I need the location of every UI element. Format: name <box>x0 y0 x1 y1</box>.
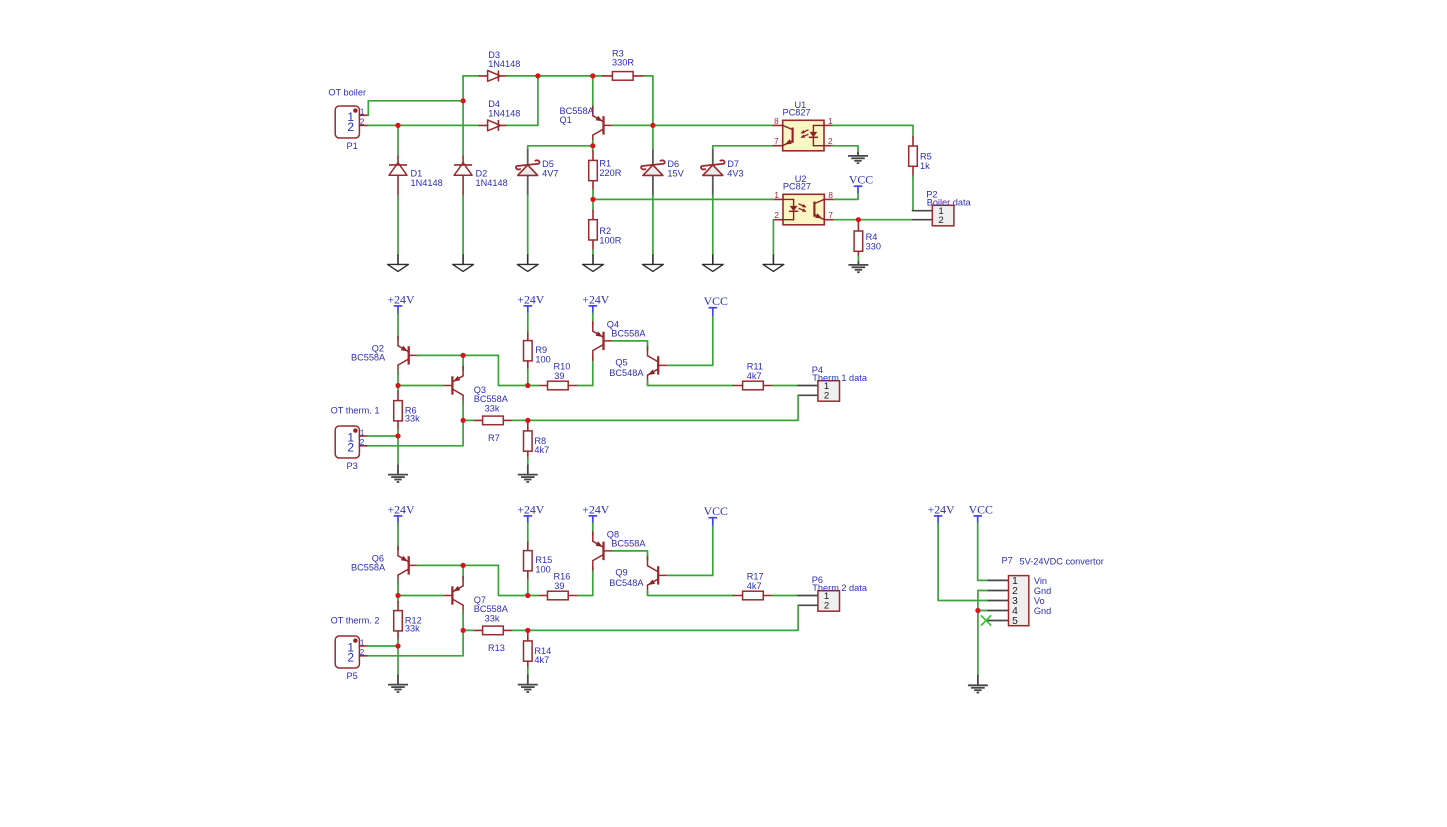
wire node to R2 <box>592 199 594 210</box>
power +24V (Q6 emitter) <box>388 502 415 523</box>
power +24V (P7) <box>928 502 955 523</box>
svg-text:33k: 33k <box>485 613 500 623</box>
svg-text:5V-24VDC convertor: 5V-24VDC convertor <box>1020 557 1104 567</box>
zener diode D6 15V <box>641 150 685 195</box>
zener diode D7 4V3 <box>701 150 744 195</box>
wire Q1 base to U1 pin 8 <box>613 124 773 126</box>
wire VCC to P7 pin1 (Vin) <box>978 523 989 580</box>
optocoupler U2 PC827 <box>773 174 834 225</box>
junction P1.2 / D1 <box>395 123 400 128</box>
zener diode D5 4V7 <box>516 150 559 195</box>
svg-text:D6: D6 <box>667 159 679 169</box>
wire R1 to node <box>592 190 594 199</box>
resistor R7 33k <box>474 403 513 443</box>
svg-text:4k7: 4k7 <box>747 581 762 591</box>
svg-text:BC558A: BC558A <box>611 538 646 548</box>
no-connect flag P7 pin5 <box>982 616 991 625</box>
junction Q3 collector / R7 / P3.2 <box>461 418 466 423</box>
wire R12 to P5.1 <box>397 640 399 647</box>
svg-text:R1: R1 <box>599 159 611 169</box>
wire to P7 pin4 (Gnd) <box>978 610 988 612</box>
svg-text:2: 2 <box>347 120 354 134</box>
junction Q6 base / Q7 emitter <box>461 563 466 568</box>
svg-text:BC558A: BC558A <box>474 394 509 404</box>
wire U2 pin1 to R1/R2 node <box>593 198 773 200</box>
svg-text:Gnd: Gnd <box>1034 586 1051 596</box>
svg-text:2: 2 <box>824 601 829 612</box>
transistor Q4 BC558A <box>593 319 647 360</box>
wire to Q3 emitter <box>462 355 464 370</box>
resistor R15 100 <box>524 542 553 579</box>
wire down to ground <box>397 646 399 675</box>
wire vertical D3 anode to D2 cathode <box>462 76 464 156</box>
transistor Q2 BC558A <box>351 336 418 374</box>
svg-text:2: 2 <box>347 651 354 665</box>
junction Q2 base / Q3 emitter <box>461 353 466 358</box>
wire node to R4 <box>857 220 859 222</box>
power VCC (U2 pin8) <box>849 173 873 194</box>
wire to R6 <box>397 386 399 392</box>
svg-text:8: 8 <box>828 191 833 200</box>
svg-text:R2: R2 <box>599 226 611 236</box>
wire R2 to ground <box>592 250 594 255</box>
resistor R11 4k7 <box>734 361 773 389</box>
wire P3.2 up to R7 row <box>368 420 463 445</box>
wire R17 to P6.1 <box>773 595 799 597</box>
wire node to D5 <box>528 146 593 150</box>
junction R9 / R10 <box>525 383 530 388</box>
svg-text:7: 7 <box>828 211 833 220</box>
power +24V (R15) <box>517 502 544 523</box>
wire U1 pin2 to ground <box>832 146 858 153</box>
svg-text:4V3: 4V3 <box>727 168 743 178</box>
svg-text:+24V: +24V <box>388 502 415 516</box>
svg-text:+24V: +24V <box>582 292 609 306</box>
junction R6 / P3.1 <box>395 433 400 438</box>
svg-text:D5: D5 <box>542 159 554 169</box>
ground (D5) <box>517 255 538 271</box>
wire VCC to U2 pin8 <box>834 194 858 200</box>
wire D1 to ground <box>397 196 399 256</box>
ground (D6) <box>643 255 664 271</box>
ground (U2 pin2) <box>763 255 784 271</box>
ground (R6) <box>388 465 408 482</box>
svg-text:+24V: +24V <box>928 502 955 516</box>
svg-text:330: 330 <box>866 242 881 252</box>
wire Q3 base <box>398 385 443 387</box>
svg-text:+24V: +24V <box>388 292 415 306</box>
svg-text:33k: 33k <box>485 403 500 413</box>
junction R12 / P5.1 <box>395 643 400 648</box>
svg-text:2: 2 <box>360 118 365 127</box>
svg-text:2: 2 <box>824 391 829 402</box>
wire D2 to ground <box>462 196 464 256</box>
wire D6 to ground <box>652 195 654 255</box>
power VCC (Q9 base) <box>704 504 728 525</box>
wire D7 to ground <box>712 195 714 255</box>
wire +24V to Q2 <box>397 313 399 340</box>
svg-text:Q9: Q9 <box>615 568 627 578</box>
svg-text:+24V: +24V <box>517 292 544 306</box>
svg-text:100: 100 <box>535 354 550 364</box>
resistor R8 4k7 <box>524 422 550 458</box>
svg-text:5: 5 <box>1012 616 1018 627</box>
svg-text:Q5: Q5 <box>615 358 627 368</box>
svg-text:P5: P5 <box>346 671 357 681</box>
wire to ground <box>527 668 529 676</box>
svg-text:2: 2 <box>360 438 365 447</box>
ground (U1 pin2) <box>848 153 868 164</box>
resistor R6 33k <box>394 392 420 430</box>
wire R16 to Q8 collector <box>578 566 593 595</box>
svg-text:BC558A: BC558A <box>351 353 386 363</box>
svg-text:1N4148: 1N4148 <box>476 178 508 188</box>
svg-text:VCC: VCC <box>969 502 993 516</box>
junction R13 / R14 / long wire <box>525 628 530 633</box>
svg-text:2: 2 <box>360 648 365 657</box>
svg-text:1: 1 <box>774 191 779 200</box>
wire to R1 <box>592 146 594 151</box>
svg-text:100R: 100R <box>599 235 621 245</box>
wire +24V to Q6 <box>397 523 399 550</box>
svg-text:Vo: Vo <box>1034 596 1045 606</box>
svg-text:Therm 2 data: Therm 2 data <box>812 583 868 593</box>
connector P5 (OT therm. 2) <box>331 615 380 681</box>
power +24V (Q2 emitter) <box>388 292 415 313</box>
diode D2 1N4148 <box>454 156 508 195</box>
junction U2.7 / R4 <box>856 217 861 222</box>
svg-text:PC827: PC827 <box>783 181 811 191</box>
wire Q8 base to Q9 collector <box>613 551 648 560</box>
wire R9 to R10 row <box>527 369 529 385</box>
resistor R2 100R <box>589 210 622 250</box>
wire base row to D6 <box>652 125 654 149</box>
wire P5.2 up to R7 row <box>368 630 463 655</box>
transistor Q6 BC558A <box>351 546 418 584</box>
wire to R12 <box>397 596 399 602</box>
resistor R10 39 <box>538 362 577 390</box>
wire Q5 base to VCC <box>668 316 713 366</box>
svg-text:2: 2 <box>774 211 779 220</box>
wire to ground <box>527 458 529 466</box>
svg-text:1: 1 <box>360 638 365 647</box>
svg-text:+24V: +24V <box>517 502 544 516</box>
svg-text:Gnd: Gnd <box>1034 606 1051 616</box>
wire down to D1 <box>397 125 399 156</box>
wire U2 pin7 to P2 pin2 <box>834 219 913 221</box>
wire P1.1 to D2/D3 column <box>368 101 463 116</box>
junction Q3 base / R6 <box>395 383 400 388</box>
svg-text:4k7: 4k7 <box>534 655 549 665</box>
svg-text:8: 8 <box>774 117 779 126</box>
wire to D3 anode <box>463 75 479 77</box>
transistor Q1 BC558A <box>560 106 613 145</box>
connector P6 (Therm 2 data) <box>798 575 868 612</box>
power VCC (Q5 base) <box>704 294 728 315</box>
ground (D2) <box>453 255 474 271</box>
junction P1.1 / D2-D3 net <box>461 98 466 103</box>
svg-text:R11: R11 <box>747 361 763 371</box>
transistor Q5 BC548A <box>609 346 667 384</box>
svg-text:OT therm. 2: OT therm. 2 <box>331 615 380 625</box>
svg-text:7: 7 <box>774 137 779 146</box>
svg-text:2: 2 <box>828 137 833 146</box>
wire R15 to R10 row <box>527 579 529 595</box>
wire Q7 base <box>398 595 443 597</box>
svg-text:BC548A: BC548A <box>609 368 644 378</box>
wire Q6 base row to R10 row <box>417 565 528 595</box>
svg-text:4V7: 4V7 <box>542 168 558 178</box>
junction R3/Q1 emitter <box>590 73 595 78</box>
wire Q9 emitter to R17 <box>648 591 734 596</box>
svg-text:R15: R15 <box>535 555 552 565</box>
svg-text:Therm 1 data: Therm 1 data <box>812 373 868 383</box>
svg-text:VCC: VCC <box>704 504 728 518</box>
wire P1.2 to D4 anode <box>368 124 479 126</box>
svg-text:100: 100 <box>535 564 550 574</box>
svg-text:P3: P3 <box>346 461 357 471</box>
svg-text:Boiler data: Boiler data <box>927 198 972 208</box>
wire U2 pin2 to ground <box>772 220 774 256</box>
ground (P7) <box>968 676 988 693</box>
wire to Q7 emitter <box>462 565 464 580</box>
wire Q1 emitter from D3 row <box>592 76 594 110</box>
svg-text:1: 1 <box>828 117 833 126</box>
connector P7 (5V-24VDC convertor) <box>988 556 1103 628</box>
svg-text:P7: P7 <box>1002 556 1013 566</box>
diode D4 1N4148 <box>479 99 520 131</box>
svg-text:15V: 15V <box>667 168 684 178</box>
wire D5 to ground <box>527 195 529 255</box>
diode D3 1N4148 <box>479 50 520 82</box>
resistor R1 220R <box>589 151 622 190</box>
wire R6 to P3.1 <box>397 430 399 437</box>
svg-text:R9: R9 <box>535 345 547 355</box>
connector P2 (Boiler data) <box>913 190 972 227</box>
wire <box>528 385 539 387</box>
wire to R14 <box>527 630 529 632</box>
svg-text:1N4148: 1N4148 <box>488 108 520 118</box>
wire R5 to P2 pin1 <box>912 176 914 211</box>
svg-text:Q1: Q1 <box>560 115 572 125</box>
svg-text:Vin: Vin <box>1034 576 1047 586</box>
svg-text:VCC: VCC <box>849 173 873 187</box>
svg-text:330R: 330R <box>612 58 634 68</box>
wire +24V to Q8 <box>592 523 594 535</box>
resistor R14 4k7 <box>524 632 552 668</box>
power VCC (P7) <box>969 502 993 523</box>
wire <box>512 419 527 421</box>
wire down to ground <box>397 436 399 465</box>
svg-text:1k: 1k <box>920 161 930 171</box>
connector P3 (OT therm. 1) <box>331 405 380 471</box>
svg-text:39: 39 <box>554 371 564 381</box>
resistor R3 330R <box>603 48 644 80</box>
svg-text:VCC: VCC <box>704 294 728 308</box>
transistor Q3 BC558A <box>443 366 509 404</box>
svg-text:R4: R4 <box>866 232 878 242</box>
svg-text:2: 2 <box>938 215 943 226</box>
wire to R8 <box>527 420 529 422</box>
wire <box>463 629 473 631</box>
svg-text:220R: 220R <box>599 168 621 178</box>
ground (R12) <box>388 675 408 692</box>
junction R1/R2/U2.1 <box>590 197 595 202</box>
power +24V (R9) <box>517 292 544 313</box>
wire P6.2 to R14 node <box>528 605 798 630</box>
svg-text:1N4148: 1N4148 <box>411 178 443 188</box>
wire Q5 emitter to R11 <box>648 381 734 386</box>
svg-text:P1: P1 <box>346 141 357 151</box>
junction D3/D4 cathodes <box>535 73 540 78</box>
svg-text:33k: 33k <box>405 413 420 423</box>
resistor R4 330 <box>854 222 881 256</box>
wire D3 cathode to R3 <box>507 75 603 77</box>
wire Q4 base to Q5 collector <box>613 341 648 350</box>
junction Q1 collector / D5 / R1 <box>590 143 595 148</box>
junction base row / D6 / R3 <box>650 123 655 128</box>
transistor Q9 BC548A <box>609 556 667 594</box>
svg-text:1: 1 <box>360 428 365 437</box>
transistor Q8 BC558A <box>593 529 647 570</box>
resistor R17 4k7 <box>734 571 773 599</box>
svg-text:39: 39 <box>554 581 564 591</box>
diode D1 1N4148 <box>389 156 443 195</box>
svg-text:R10: R10 <box>554 362 571 372</box>
junction Q7 collector / R13 / P5.2 <box>461 628 466 633</box>
wire <box>528 595 539 597</box>
svg-text:BC558A: BC558A <box>611 328 646 338</box>
wire +24V to R9 <box>527 313 529 332</box>
wire Q7 collector down <box>462 611 464 630</box>
wire U1 pin7 to D7 <box>713 145 773 147</box>
svg-text:BC558A: BC558A <box>351 563 386 573</box>
wire Q1 collector to node <box>592 141 594 146</box>
wire R3 to D6/base row <box>644 76 653 126</box>
wire P3.1 <box>368 435 398 437</box>
wire <box>512 629 527 631</box>
svg-text:4k7: 4k7 <box>747 371 762 381</box>
wire Q2 base row to R10 row <box>417 355 528 385</box>
svg-text:1: 1 <box>360 108 365 117</box>
svg-text:OT therm. 1: OT therm. 1 <box>331 405 380 415</box>
wire P7 pin2 Gnd down to ground <box>978 591 988 676</box>
wire Q3 collector down <box>462 401 464 420</box>
wire P4.2 to R8 node <box>528 395 798 420</box>
wire +24V to P7 pin3 (Vo) <box>938 523 988 600</box>
svg-text:R7: R7 <box>488 433 500 443</box>
svg-text:R13: R13 <box>488 643 505 653</box>
connector P1 (OT boiler) <box>328 88 368 151</box>
resistor R5 1k <box>909 137 932 177</box>
ground (R14) <box>518 675 538 692</box>
ground (R4) <box>848 262 868 273</box>
resistor R9 100 <box>524 332 551 369</box>
svg-text:2: 2 <box>347 441 354 455</box>
ground (D7) <box>702 255 723 271</box>
svg-text:BC558A: BC558A <box>474 604 509 614</box>
wire <box>463 419 473 421</box>
power +24V (Q8 emitter) <box>582 502 609 523</box>
svg-text:D7: D7 <box>727 159 739 169</box>
svg-text:4k7: 4k7 <box>534 445 549 455</box>
ground (R8) <box>518 465 538 482</box>
wire R11 to P4.1 <box>773 385 799 387</box>
junction P7 pin2/pin4 Gnd <box>975 608 980 613</box>
wire Q6 collector down <box>397 581 399 596</box>
svg-text:R5: R5 <box>920 152 932 162</box>
junction Q7 base / R12 <box>395 593 400 598</box>
wire D4 cathode up to D3 row <box>507 76 538 126</box>
svg-text:R16: R16 <box>554 572 571 582</box>
ground (D1) <box>388 255 409 271</box>
resistor R12 33k <box>394 602 422 640</box>
svg-text:R17: R17 <box>747 571 764 581</box>
wire U1.7 row to D7 <box>712 146 714 150</box>
junction R7 / R8 / long wire <box>525 418 530 423</box>
wire R10 to Q4 collector <box>578 356 593 385</box>
svg-text:1N4148: 1N4148 <box>488 59 520 69</box>
connector P4 (Therm 1 data) <box>798 365 868 402</box>
wire P5.1 <box>368 645 398 647</box>
wire Q2 collector down <box>397 371 399 386</box>
svg-text:PC827: PC827 <box>783 107 811 117</box>
svg-text:BC548A: BC548A <box>609 578 644 588</box>
power +24V (Q4 emitter) <box>582 292 609 313</box>
wire U1 pin1 to R5 <box>832 125 913 136</box>
wire Q9 base to VCC <box>668 526 713 576</box>
wire R4 to ground <box>857 256 859 261</box>
transistor Q7 BC558A <box>443 576 509 614</box>
optocoupler U1 PC827 <box>773 100 834 151</box>
wire +24V to R15 <box>527 523 529 542</box>
svg-text:OT boiler: OT boiler <box>328 88 366 98</box>
junction R15 / R16 <box>525 593 530 598</box>
svg-text:33k: 33k <box>405 623 420 633</box>
svg-text:+24V: +24V <box>582 502 609 516</box>
resistor R16 39 <box>538 572 577 600</box>
ground (R2) <box>583 255 604 271</box>
resistor R13 33k <box>474 613 513 653</box>
wire +24V to Q4 <box>592 313 594 325</box>
